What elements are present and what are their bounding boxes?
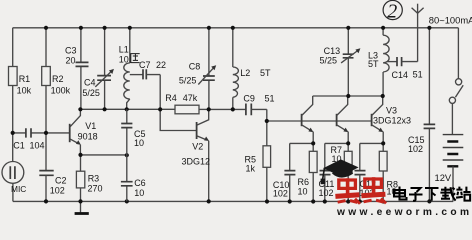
transistor V2 3DG12 — [182, 109, 211, 201]
wire V2 base — [160, 109, 196, 130]
junction dots bottom rail — [44, 199, 432, 203]
svg-text:R6: R6 — [298, 177, 310, 187]
svg-text:V2: V2 — [192, 142, 203, 152]
capacitor C15 — [408, 28, 435, 202]
circled number 2 — [383, 0, 402, 22]
wire collector rail of output trio — [313, 95, 383, 97]
wire collector node rail — [80, 108, 175, 110]
svg-text:5/25: 5/25 — [82, 88, 100, 98]
microphone MIC — [2, 162, 26, 202]
wire top supply rail — [13, 27, 459, 29]
svg-text:9018: 9018 — [78, 131, 98, 141]
capacitor C11 — [319, 143, 349, 201]
wire V1 emitter to C5/C6 node — [81, 154, 127, 156]
svg-text:C6: C6 — [134, 178, 146, 188]
svg-text:3DG12: 3DG12 — [182, 157, 211, 167]
resistor R1 — [9, 67, 32, 96]
svg-text:L2: L2 — [240, 68, 250, 78]
svg-text:C9: C9 — [243, 94, 255, 104]
svg-text:V3: V3 — [386, 106, 397, 116]
capacitor C6 — [121, 155, 146, 201]
transistor V3b — [337, 96, 349, 143]
svg-text:51: 51 — [413, 69, 423, 79]
label zha turns character — [131, 54, 140, 63]
watermark graduation cap — [321, 159, 359, 184]
battery 12V — [435, 135, 464, 202]
junction dots top rail — [44, 26, 432, 30]
svg-text:C4: C4 — [84, 77, 96, 87]
svg-text:100k: 100k — [51, 85, 71, 95]
switch S — [449, 28, 463, 135]
svg-text:22: 22 — [156, 60, 166, 70]
watermark red bug 1 — [335, 178, 360, 204]
inductor L3 — [368, 28, 389, 96]
capacitor C10 — [273, 143, 313, 201]
svg-text:270: 270 — [88, 184, 103, 194]
svg-text:5/25: 5/25 — [320, 55, 338, 65]
svg-text:C1: C1 — [13, 141, 25, 151]
svg-text:R1: R1 — [19, 74, 31, 84]
junction dots mid nodes — [11, 94, 386, 157]
wire bottom ground rail — [13, 200, 453, 202]
svg-text:102: 102 — [319, 188, 334, 198]
capacitor C14 — [388, 57, 423, 80]
svg-text:102: 102 — [273, 189, 288, 199]
wire V2 collector node — [209, 108, 246, 110]
svg-text:R4: R4 — [165, 93, 177, 103]
capacitor C3 — [65, 28, 89, 110]
capacitor C12 — [355, 143, 384, 201]
svg-text:5T: 5T — [368, 59, 379, 69]
transistor V1 9018 — [70, 109, 98, 155]
svg-text:C7: C7 — [139, 60, 151, 70]
inductor L2 — [233, 28, 271, 110]
resistor R4 — [165, 93, 208, 114]
svg-text:R2: R2 — [52, 74, 64, 84]
resistor R6 — [298, 143, 318, 201]
variable capacitor C8 — [179, 28, 216, 110]
svg-text:R3: R3 — [88, 173, 100, 183]
svg-text:C2: C2 — [55, 176, 67, 186]
resistor R7 — [331, 143, 353, 201]
svg-text:V1: V1 — [85, 121, 96, 131]
svg-text:51: 51 — [265, 94, 275, 104]
transistor V3a — [302, 96, 314, 143]
label C5 capacitor — [121, 109, 145, 155]
svg-text:www.eeworm.com: www.eeworm.com — [336, 207, 472, 217]
capacitor C2 — [39, 171, 66, 202]
resistor R5 — [245, 121, 271, 202]
svg-text:10: 10 — [134, 188, 144, 198]
variable capacitor C13 — [320, 28, 361, 96]
svg-text:C8: C8 — [189, 62, 201, 72]
svg-text:10: 10 — [134, 138, 144, 148]
variable capacitor C4 — [82, 28, 114, 110]
svg-text:10: 10 — [298, 186, 308, 196]
resistor R3 — [76, 155, 102, 202]
svg-text:10: 10 — [119, 55, 129, 65]
svg-text:12V: 12V — [435, 172, 452, 183]
svg-text:2: 2 — [387, 1, 397, 23]
capacitor C9 — [243, 94, 274, 122]
antenna — [412, 4, 424, 62]
wire base rail of output trio — [267, 120, 372, 122]
svg-text:80~100mA: 80~100mA — [429, 15, 472, 26]
svg-text:102: 102 — [50, 186, 65, 196]
svg-text:5/25: 5/25 — [179, 75, 197, 85]
svg-text:47k: 47k — [183, 93, 198, 103]
svg-text:104: 104 — [30, 141, 45, 151]
transistor V3c — [372, 96, 411, 143]
svg-text:20: 20 — [66, 55, 76, 65]
inductor L1 — [119, 28, 130, 110]
svg-text:1k: 1k — [246, 164, 256, 174]
svg-text:5T: 5T — [260, 68, 271, 78]
svg-text:C3: C3 — [65, 46, 77, 56]
svg-text:C14: C14 — [392, 70, 409, 80]
capacitor C1 — [13, 128, 70, 150]
resistor R8 — [379, 143, 398, 201]
svg-text:L1: L1 — [119, 45, 129, 55]
watermark text dian zi xia zai zhan — [394, 187, 471, 201]
svg-text:MIC: MIC — [11, 184, 26, 194]
capacitor C7 — [130, 60, 166, 109]
wire left rail — [12, 28, 14, 162]
svg-text:102: 102 — [408, 144, 423, 154]
resistor R2 — [42, 28, 71, 171]
ground — [75, 201, 89, 213]
svg-text:3DG12x3: 3DG12x3 — [373, 115, 411, 125]
svg-text:10k: 10k — [17, 85, 32, 95]
watermark red bug 2 — [361, 177, 386, 203]
